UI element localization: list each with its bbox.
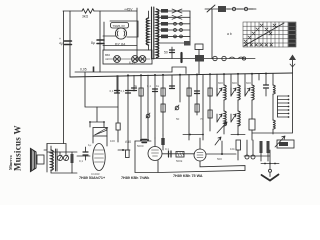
svg-text:7H89 KBh 75 WA: 7H89 KBh 75 WA	[173, 174, 203, 178]
svg-text:500k: 500k	[176, 159, 183, 163]
svg-text:Minerva: Minerva	[8, 155, 13, 170]
svg-text:0,1: 0,1	[165, 147, 169, 151]
svg-text:7H89 53Ah/71+: 7H89 53Ah/71+	[79, 176, 105, 180]
svg-text:600: 600	[246, 81, 251, 85]
svg-text:4μ: 4μ	[59, 42, 63, 46]
svg-text:3kΩ: 3kΩ	[82, 15, 89, 19]
svg-text:0,1: 0,1	[110, 89, 114, 93]
svg-text:70: 70	[200, 117, 204, 121]
svg-text:a b: a b	[227, 32, 232, 36]
svg-text:100: 100	[110, 139, 115, 143]
svg-text:BY 84: BY 84	[115, 43, 125, 47]
svg-text:10k: 10k	[230, 147, 235, 151]
svg-text:50: 50	[176, 117, 180, 121]
svg-text:7H89 KBh 7hWk: 7H89 KBh 7hWk	[121, 176, 150, 180]
svg-text:790/6,3V: 790/6,3V	[113, 24, 126, 28]
svg-text:Musicus W: Musicus W	[13, 125, 23, 171]
svg-text:+45V: +45V	[124, 8, 133, 12]
svg-text:0,1: 0,1	[147, 84, 151, 88]
svg-text:6,3V: 6,3V	[129, 61, 135, 65]
svg-text:1μ: 1μ	[88, 143, 92, 147]
svg-text:+: +	[59, 37, 61, 41]
svg-text:Λ50: Λ50	[125, 140, 131, 144]
svg-text:0,05: 0,05	[80, 68, 87, 72]
svg-text:500: 500	[217, 157, 222, 161]
svg-text:50: 50	[164, 51, 168, 55]
svg-text:8μ: 8μ	[91, 41, 95, 45]
svg-text:600: 600	[232, 81, 237, 85]
svg-text:600: 600	[218, 81, 223, 85]
svg-text:0,1: 0,1	[121, 89, 125, 93]
svg-text:0,1: 0,1	[79, 159, 83, 163]
svg-text:5000: 5000	[137, 144, 144, 148]
